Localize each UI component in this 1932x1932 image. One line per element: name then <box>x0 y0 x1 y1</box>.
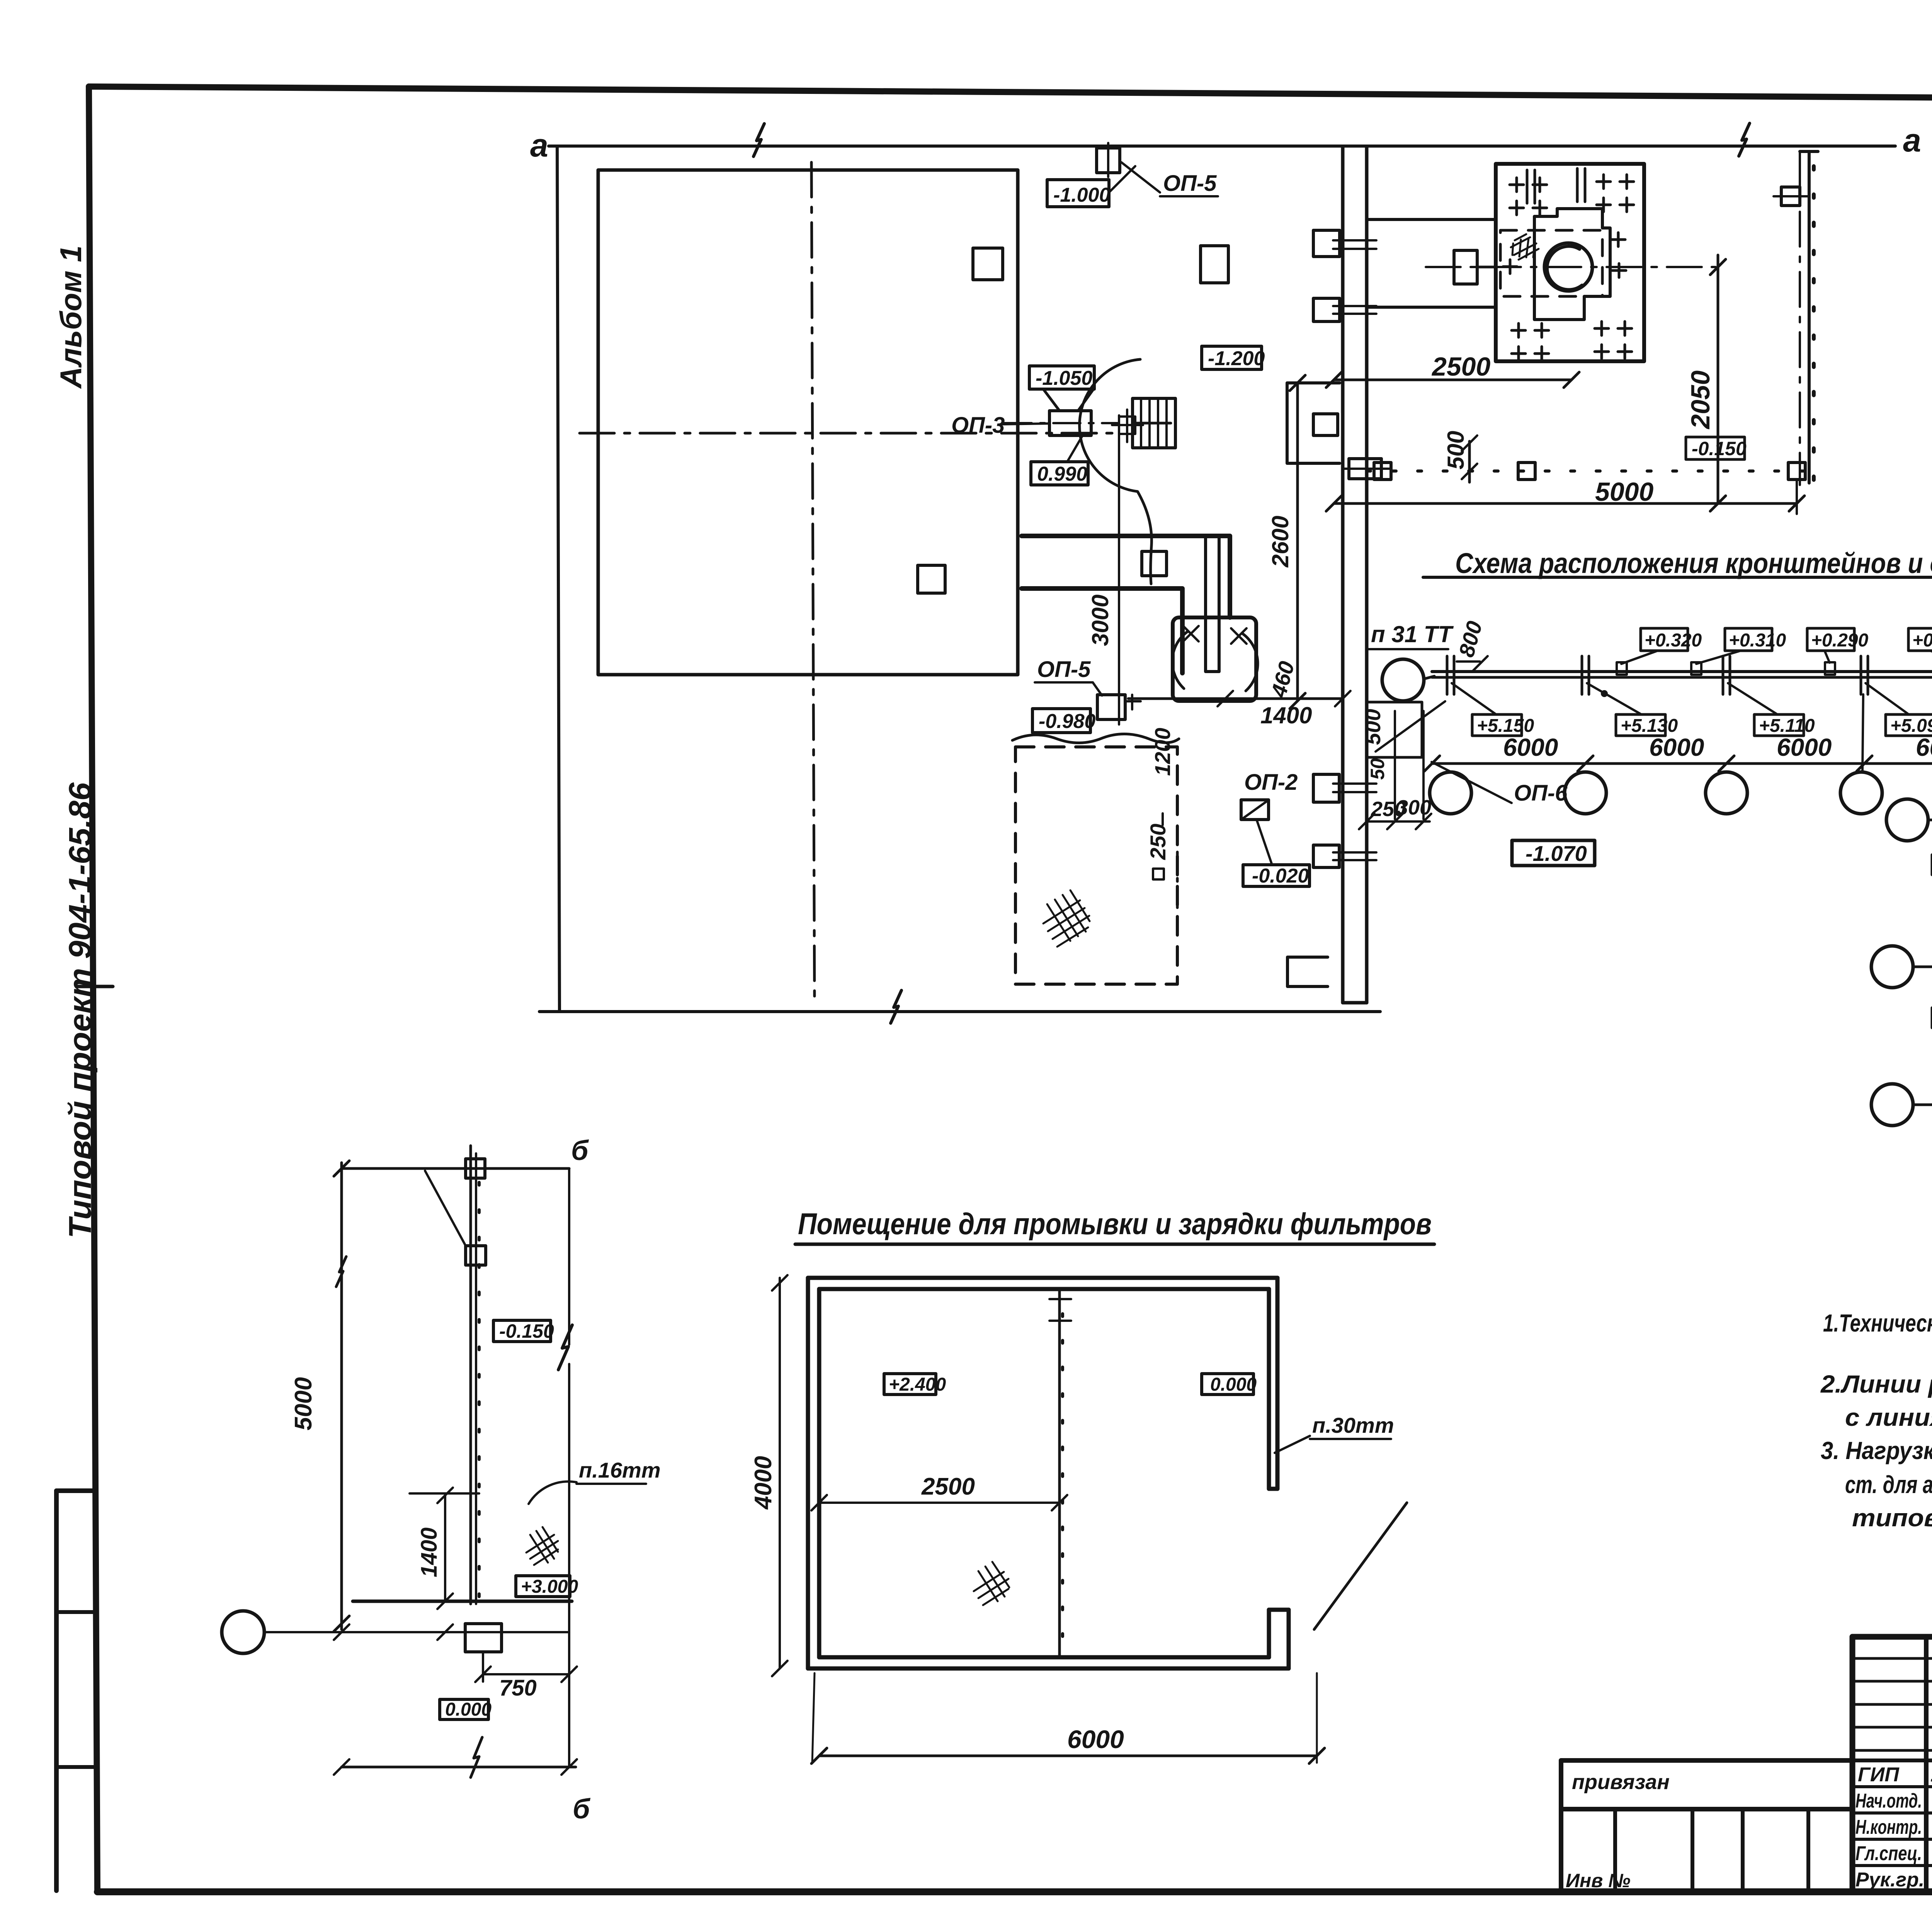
svg-text:а: а <box>1903 122 1921 158</box>
right wall dotted <box>1808 151 1811 483</box>
svg-text:0.000: 0.000 <box>445 1699 492 1720</box>
break mark <box>558 1325 572 1370</box>
svg-text:п 31 ТТ: п 31 ТТ <box>1371 621 1454 647</box>
wall bracket large <box>1287 383 1340 463</box>
level -1.070 <box>1512 840 1595 866</box>
svg-text:Нач.отд.: Нач.отд. <box>1855 1790 1922 1812</box>
svg-text:3000: 3000 <box>1087 595 1113 646</box>
svg-text:5000: 5000 <box>1595 477 1653 507</box>
svg-text:6000: 6000 <box>1067 1725 1124 1753</box>
svg-text:б: б <box>571 1135 589 1166</box>
svg-text:ОП-3: ОП-3 <box>951 413 1005 438</box>
dim 500 low <box>1468 441 1471 482</box>
section line a-a <box>549 145 1895 148</box>
svg-text:-1.050: -1.050 <box>1036 367 1093 389</box>
svg-text:6000: 6000 <box>1777 733 1832 761</box>
plan bottom wall line <box>539 1010 1380 1013</box>
hatch patch storage <box>1043 890 1090 947</box>
duct walls <box>1022 536 1230 673</box>
svg-text:6000: 6000 <box>1503 733 1558 761</box>
column <box>973 248 1003 280</box>
svg-text:привязан: привязан <box>1572 1770 1670 1794</box>
svg-text:0.000: 0.000 <box>1210 1374 1257 1395</box>
dim row 6000s <box>1432 762 1932 765</box>
column <box>1142 551 1167 576</box>
svg-text:+0.270: +0.270 <box>1912 630 1932 651</box>
upper room wall <box>1367 306 1496 309</box>
svg-text:-0.020: -0.020 <box>1252 865 1309 887</box>
node circle left <box>1382 659 1424 701</box>
level -0.980 <box>1032 709 1090 733</box>
wall bracket <box>1313 845 1339 867</box>
level -1.050 <box>1029 366 1094 389</box>
room walls <box>808 1278 1289 1668</box>
circle row2 <box>1871 946 1913 988</box>
svg-text:Схема расположения кронштейнов: Схема расположения кронштейнов и опор <box>1455 547 1932 579</box>
svg-text:0.990: 0.990 <box>1037 463 1087 485</box>
hatch patch plate <box>1511 234 1539 260</box>
right axis dash-dot <box>1799 151 1801 485</box>
svg-text:Альбом 1: Альбом 1 <box>54 245 88 389</box>
svg-text:Н.контр.: Н.контр. <box>1855 1816 1922 1838</box>
svg-text:50: 50 <box>1367 758 1388 780</box>
storage dashed room <box>1012 734 1179 743</box>
level 0.000 room <box>1202 1374 1253 1395</box>
svg-text:-0.150: -0.150 <box>1692 438 1747 459</box>
dim 2600 <box>1296 383 1299 701</box>
dim 5000 <box>1334 502 1797 505</box>
inner frame <box>1534 209 1610 320</box>
page number 58 top right <box>77 985 113 988</box>
dim square 250 <box>1153 869 1164 879</box>
dim 6000 <box>819 1755 1317 1757</box>
svg-text:6000: 6000 <box>1916 733 1932 761</box>
wall bracket <box>1313 774 1339 802</box>
svg-text:1400: 1400 <box>1260 702 1312 728</box>
svg-text:ОП-5: ОП-5 <box>1163 171 1217 196</box>
dim 5000 line <box>340 1163 343 1629</box>
dim 3000 <box>1118 415 1120 724</box>
level +0.270 <box>1908 628 1932 651</box>
svg-text:Типовой проект 904-1-65.86: Типовой проект 904-1-65.86 <box>63 782 98 1238</box>
wall bracket <box>1313 230 1340 257</box>
corridor wall double <box>1341 147 1345 1003</box>
corner room <box>1367 702 1422 757</box>
circle row3 <box>1871 1084 1913 1126</box>
fan pipes <box>1206 536 1219 672</box>
dim 2500 <box>1334 379 1571 381</box>
level +5.090 <box>1886 714 1932 736</box>
level +3.000 <box>516 1576 570 1597</box>
dim 2500 <box>819 1502 1060 1504</box>
dim 2050 <box>1717 255 1719 503</box>
svg-text:6000: 6000 <box>1649 733 1704 761</box>
level +0.310 <box>1725 628 1772 651</box>
dim 1400 <box>444 1493 446 1601</box>
level +5.150 <box>1472 714 1522 736</box>
column dotted row <box>1367 469 1806 473</box>
svg-text:а: а <box>530 127 548 163</box>
svg-text:+0.310: +0.310 <box>1729 630 1786 651</box>
building main hall rect <box>598 170 1018 675</box>
wall anchor <box>466 1246 486 1265</box>
dim bottom <box>342 1766 576 1769</box>
hatch room <box>974 1562 1009 1605</box>
svg-text:1.Технические требования ст.: 1.Технические требования ст. п.п. 1-21, … <box>1823 1309 1932 1337</box>
dashed pit <box>1500 230 1602 296</box>
door swing arc <box>1080 359 1152 584</box>
svg-text:+0.290: +0.290 <box>1811 630 1868 651</box>
angle studs <box>1617 662 1627 675</box>
left attachment boxes <box>1561 1758 1852 1763</box>
axis vertical dash-dot <box>811 162 815 1005</box>
wall bracket <box>1313 298 1340 321</box>
svg-text:п.16тт: п.16тт <box>579 1458 661 1482</box>
svg-text:500: 500 <box>1443 431 1469 469</box>
svg-text:2.Линии разрыва а-а и б-б: 2.Линии разрыва а-а и б-б данного чертеж… <box>1820 1370 1932 1398</box>
bracket top right <box>1781 187 1800 206</box>
partition <box>1058 1289 1061 1657</box>
leader diagonal <box>425 1171 465 1245</box>
svg-text:2600: 2600 <box>1267 516 1293 568</box>
svg-text:ОП-5: ОП-5 <box>1037 657 1091 682</box>
level 0.000 <box>440 1699 488 1719</box>
svg-text:+3.000: +3.000 <box>521 1577 578 1597</box>
axis horizontal dash-dot <box>580 432 1117 435</box>
level +5.130 <box>1616 714 1665 736</box>
equipment plate <box>1496 164 1644 361</box>
floor line <box>353 1600 572 1603</box>
axis through pump <box>1426 266 1716 268</box>
pump circle <box>1544 243 1592 291</box>
svg-text:Инв №: Инв № <box>1566 1870 1631 1891</box>
svg-text:ОП-6: ОП-6 <box>1514 781 1568 806</box>
anchor cross <box>1112 410 1143 442</box>
anchor plus marks <box>1503 168 1634 361</box>
level 0.990 <box>1067 437 1082 462</box>
level +0.320 <box>1641 628 1688 651</box>
stairs <box>1133 398 1175 448</box>
dim 4000 <box>779 1278 781 1668</box>
svg-text:-1.000: -1.000 <box>1053 184 1111 206</box>
level -0.150 <box>1686 437 1745 459</box>
level -0.150 <box>493 1320 551 1342</box>
level +0.290 <box>1807 628 1854 651</box>
hatch <box>526 1527 558 1565</box>
wall double vertical <box>469 1146 472 1604</box>
dim 1400 <box>1128 697 1343 700</box>
svg-text:Рук.гр.: Рук.гр. <box>1855 1869 1924 1891</box>
pedestal <box>465 1624 502 1652</box>
wall bracket right side <box>1349 459 1381 479</box>
beam line <box>1432 670 1932 673</box>
svg-text:1200: 1200 <box>1150 728 1175 776</box>
level +5.110 <box>1754 714 1804 736</box>
support OP-5 top <box>1097 148 1120 173</box>
fan unit <box>1173 617 1256 701</box>
left margin inventory boxes <box>56 1491 95 1891</box>
top rail line <box>342 1167 569 1170</box>
bracket marks on beam <box>1447 656 1932 694</box>
svg-text:5000: 5000 <box>290 1377 317 1430</box>
title block outer <box>1852 1634 1932 1640</box>
level -1.000 <box>1047 180 1109 207</box>
wall bracket low large <box>1287 957 1328 986</box>
svg-text:2500: 2500 <box>921 1473 975 1500</box>
level -0.020 <box>1243 865 1310 886</box>
svg-text:ГИП: ГИП <box>1858 1764 1900 1786</box>
svg-text:1400: 1400 <box>417 1527 442 1577</box>
svg-text:типового проекта: типового проекта <box>1852 1504 1932 1532</box>
level +2.400 <box>884 1374 936 1395</box>
dim 750 <box>482 1652 484 1682</box>
svg-text:2050: 2050 <box>1686 371 1715 430</box>
svg-text:+0.320: +0.320 <box>1645 630 1702 651</box>
svg-text:-0.150: -0.150 <box>499 1320 554 1342</box>
small pedestal <box>1454 250 1477 284</box>
support circles row <box>1430 772 1471 814</box>
svg-text:2500: 2500 <box>1431 352 1490 381</box>
level -1.200 <box>1202 346 1262 369</box>
svg-text:3. Нагрузки на опоры ОП-1,: 3. Нагрузки на опоры ОП-1, ОП-2, ОП-3 и … <box>1821 1437 1932 1464</box>
svg-text:Гл.спец.: Гл.спец. <box>1855 1842 1922 1865</box>
axis circle <box>222 1611 264 1653</box>
empty small rows left part <box>1852 1657 1932 1660</box>
svg-text:-1.070: -1.070 <box>1526 841 1587 866</box>
svg-text:-1.200: -1.200 <box>1208 347 1265 370</box>
svg-text:б: б <box>573 1794 591 1825</box>
svg-text:ст. для аналогичных опор и: ст. для аналогичных опор и элементов в а… <box>1845 1471 1932 1498</box>
svg-text:Помещение для промывки и заряд: Помещение для промывки и зарядки фильтро… <box>798 1207 1432 1241</box>
upper room wall <box>1367 218 1496 221</box>
svg-text:4000: 4000 <box>750 1456 777 1510</box>
column <box>1201 246 1228 283</box>
svg-text:ОП-2: ОП-2 <box>1244 770 1298 795</box>
svg-text:п.30тт: п.30тт <box>1312 1413 1394 1437</box>
svg-text:+2.400: +2.400 <box>889 1374 946 1395</box>
support OP-3 <box>1049 411 1091 435</box>
svg-text:500: 500 <box>1361 709 1385 745</box>
column <box>918 565 945 593</box>
svg-text:с линиями разрыва а-а и б: с линиями разрыва а-а и б-б лист 1 <box>1845 1403 1932 1431</box>
door diagonal <box>1314 1503 1407 1629</box>
building outer left wall <box>557 146 560 1012</box>
svg-text:750: 750 <box>499 1675 537 1701</box>
svg-text:250: 250 <box>1146 824 1170 860</box>
svg-text:-0.980: -0.980 <box>1039 710 1096 733</box>
